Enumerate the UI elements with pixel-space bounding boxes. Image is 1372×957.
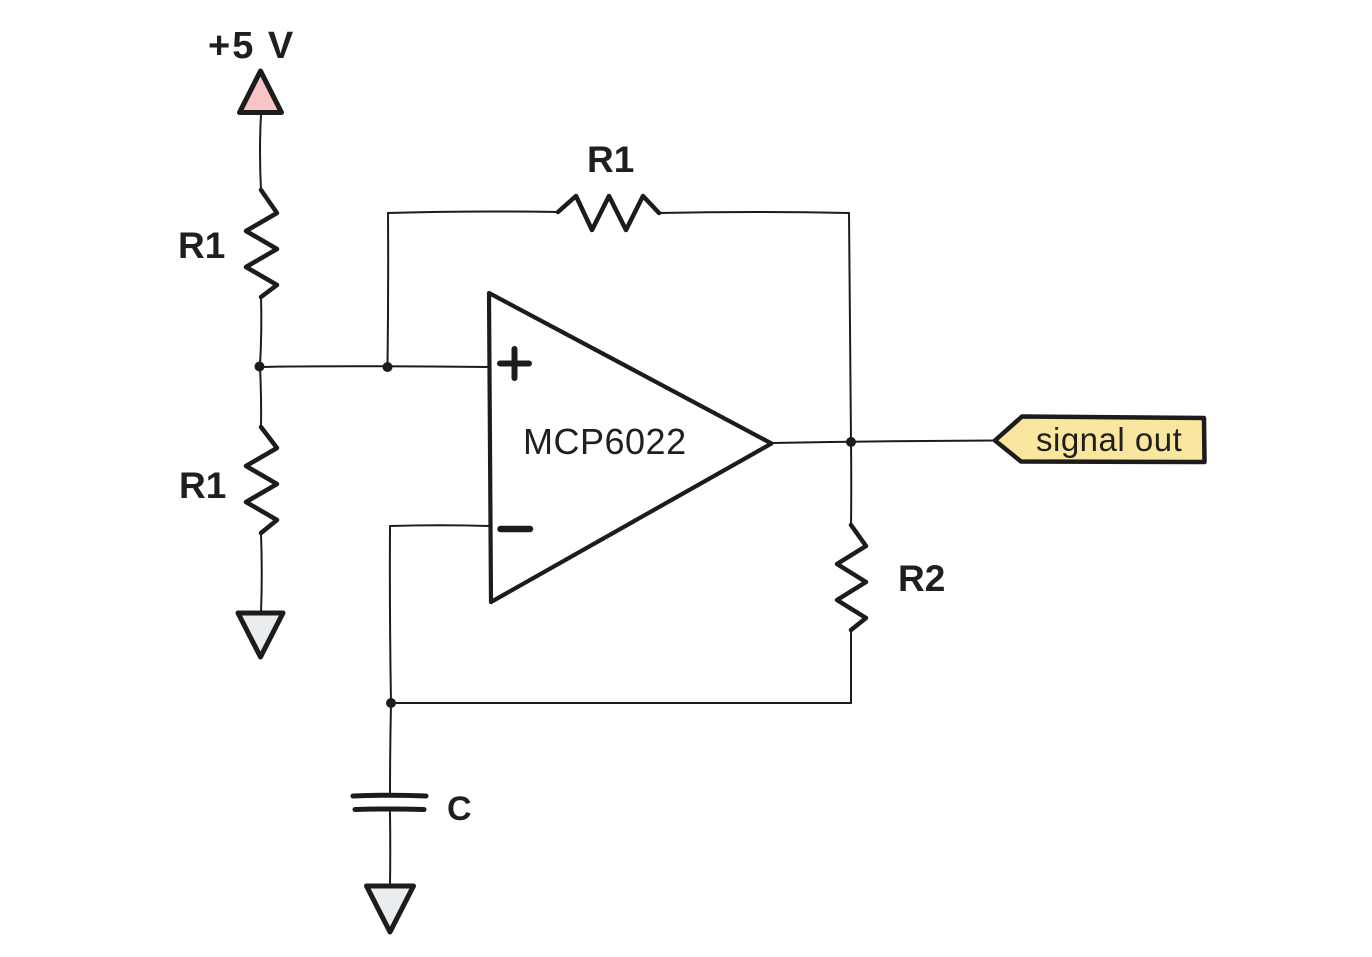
- ground (bottom): [367, 886, 414, 932]
- node B junction: [383, 362, 393, 372]
- wire feedback right segment: [659, 212, 849, 213]
- flag signal out: [995, 417, 1205, 463]
- capacitor C plates: [353, 795, 426, 809]
- wire feedback left segment: [388, 211, 558, 213]
- ground (left): [238, 613, 283, 657]
- svg-text:R1: R1: [179, 465, 226, 506]
- wire power to R1 top: [260, 115, 261, 190]
- node A junction: [255, 362, 265, 372]
- wire output node to R2: [850, 442, 852, 525]
- svg-text:signal out: signal out: [1036, 421, 1182, 458]
- svg-text:MCP6022: MCP6022: [523, 421, 687, 462]
- wire node C up to inverting input level: [390, 526, 391, 703]
- wire to op-amp - input: [390, 524, 489, 527]
- wire R2 down: [850, 630, 852, 703]
- resistor R2: [837, 525, 866, 630]
- resistor R1 feedback: [558, 196, 659, 230]
- op-amp - input marker: [501, 526, 531, 533]
- wire R1 to node A: [260, 297, 261, 366]
- output node junction: [846, 437, 856, 447]
- resistor R1 upper-left: [246, 190, 277, 297]
- wire node A to op-amp + input: [259, 365, 489, 368]
- op-amp U1 body: [489, 293, 772, 602]
- wire lower R1 top: [260, 367, 261, 427]
- svg-text:C: C: [447, 790, 472, 828]
- wire bottom horizontal: [391, 702, 851, 705]
- svg-text:R1: R1: [587, 139, 634, 180]
- wire node B up to feedback: [387, 213, 390, 367]
- node C junction: [386, 698, 396, 708]
- power symbol +5V: [240, 71, 282, 113]
- svg-text:R1: R1: [178, 225, 225, 266]
- wire lower R1 to ground: [260, 533, 263, 613]
- wire node C down to capacitor: [390, 703, 391, 794]
- resistor R1 lower-left: [246, 427, 277, 533]
- svg-text:+5 V: +5 V: [208, 25, 295, 67]
- wire feedback down to output node: [849, 213, 851, 441]
- op-amp + input marker: [500, 349, 529, 378]
- wire op-amp output to flag: [772, 441, 994, 444]
- svg-text:R2: R2: [898, 558, 945, 599]
- wire capacitor to ground: [389, 812, 391, 886]
